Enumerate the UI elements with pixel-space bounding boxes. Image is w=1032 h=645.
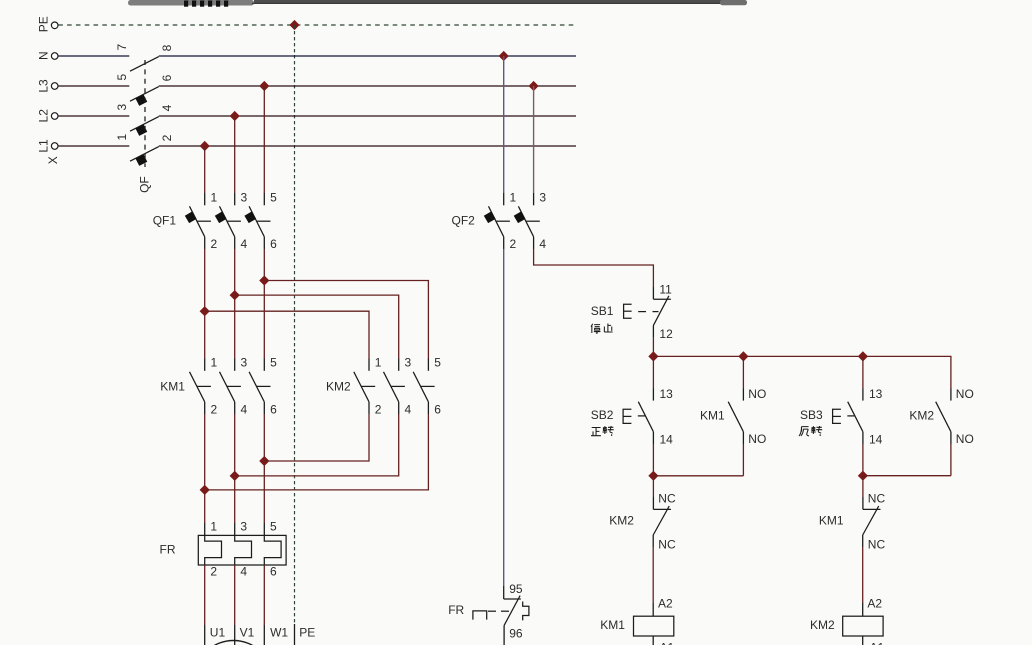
- L3 rail wire: [58, 85, 576, 87]
- pushbutton SB2 labels: [591, 408, 614, 422]
- svg-text:NO: NO: [956, 387, 974, 401]
- thermal relay FR label: [160, 543, 176, 557]
- svg-text:W1: W1: [270, 626, 288, 640]
- svg-text:A2: A2: [658, 596, 673, 610]
- svg-text:6: 6: [270, 564, 277, 578]
- node L3 junction to QF2: [529, 81, 539, 91]
- node L2 junction to QF1: [230, 111, 240, 121]
- svg-text:QF: QF: [138, 176, 152, 193]
- toolbar remnant bar: [128, 0, 747, 7]
- contactor KM2 pole 3-4: [384, 356, 412, 417]
- wire QF2 pole2 to FR95: [503, 237, 505, 599]
- pushbutton SB1 labels: [591, 304, 614, 318]
- contactor KM1 pole 5-6: [249, 356, 277, 417]
- wire QF1 pole4 to KM1 pole3: [234, 237, 236, 371]
- terminal N: [51, 53, 58, 60]
- node junction rung B: [648, 471, 658, 481]
- svg-text:2: 2: [160, 134, 174, 141]
- svg-text:V1: V1: [240, 626, 255, 640]
- wire KM2 NC to coil KM1: [653, 535, 673, 616]
- svg-text:NC: NC: [658, 491, 676, 505]
- node junction rung A to KM1 NO: [738, 351, 748, 361]
- svg-text:1: 1: [211, 356, 218, 370]
- thermal relay FR heater 5-6: [264, 520, 281, 579]
- wire KM2 pole2 return: [264, 402, 369, 461]
- breaker QF2 pole 3-4: [514, 190, 547, 251]
- svg-text:SB3: SB3: [800, 408, 823, 422]
- wire rung A to SB3: [862, 356, 864, 400]
- contactor KM2 pole 5-6: [413, 356, 441, 417]
- node PE junction: [289, 20, 299, 30]
- wire L2 branch to KM2 pole3: [235, 295, 399, 371]
- wire rung B: [653, 475, 743, 477]
- svg-text:NC: NC: [868, 491, 886, 505]
- wire FR pole2 to motor U1: [204, 565, 206, 645]
- svg-text:KM2: KM2: [609, 513, 634, 527]
- L1 rail label: [37, 139, 51, 153]
- svg-text:2: 2: [375, 402, 382, 416]
- wire SB1 to rung A: [652, 325, 654, 356]
- svg-text:2: 2: [510, 237, 517, 251]
- PE vertical wire (dashed): [294, 25, 296, 624]
- svg-text:13: 13: [660, 387, 674, 401]
- pushbutton SB1 chinese label stop: [591, 324, 613, 334]
- svg-text:FR: FR: [448, 603, 464, 617]
- node N junction: [499, 51, 509, 61]
- wire QF1 pole6 to KM1 pole5: [263, 237, 265, 371]
- PE rail label: [37, 16, 51, 32]
- wire FR pole4 to motor V1: [234, 565, 236, 645]
- svg-text:5: 5: [270, 356, 277, 370]
- pushbutton SB3 chinese label reverse: [799, 426, 822, 436]
- svg-text:4: 4: [405, 402, 412, 416]
- wire rung A to KM1 NO: [742, 356, 744, 400]
- svg-text:L1: L1: [37, 139, 51, 153]
- pushbutton SB1 (NC, stop): [624, 282, 673, 341]
- contact KM2 NC (interlock): [653, 491, 676, 551]
- wire L1 branch to KM2 pole1: [205, 311, 369, 371]
- svg-text:4: 4: [539, 237, 546, 251]
- contact KM1 NO (self-hold): [728, 387, 766, 446]
- svg-text:N: N: [37, 51, 51, 60]
- svg-text:A1: A1: [870, 640, 885, 645]
- svg-text:2: 2: [210, 564, 217, 578]
- wire L3 to QF2 pole3: [533, 86, 535, 205]
- node junction rung C: [858, 471, 868, 481]
- svg-text:NC: NC: [658, 537, 676, 551]
- svg-text:3: 3: [241, 356, 248, 370]
- svg-text:11: 11: [659, 282, 672, 296]
- svg-text:KM1: KM1: [700, 409, 725, 423]
- svg-text:KM1: KM1: [819, 513, 844, 527]
- svg-text:QF1: QF1: [153, 214, 177, 228]
- breaker QF1 pole 1-2: [185, 190, 218, 251]
- node junction KM2 pole2 return: [259, 456, 269, 466]
- L1 rail wire: [58, 145, 576, 147]
- coil KM1: [600, 616, 674, 645]
- svg-text:3: 3: [539, 190, 546, 204]
- wire rung B to KM2 NC: [652, 476, 654, 510]
- svg-text:1: 1: [210, 520, 217, 534]
- node junction L3 branch to KM2: [259, 275, 269, 285]
- terminal PE: [51, 22, 58, 29]
- svg-text:4: 4: [240, 564, 247, 578]
- wire L3 branch to KM2 pole5: [264, 281, 428, 371]
- contact KM2 NC label: [609, 513, 634, 527]
- thermal relay FR heater 3-4: [235, 520, 252, 579]
- svg-text:1: 1: [115, 134, 129, 141]
- svg-text:14: 14: [869, 433, 883, 447]
- wire KM1 pole4 to FR pole3: [234, 402, 236, 536]
- contact KM1 NO label: [700, 409, 725, 423]
- breaker QF1 pole 3-4: [215, 190, 248, 251]
- N rail label: [37, 51, 51, 60]
- N rail wire: [58, 55, 576, 57]
- node junction SB1 out: [648, 351, 658, 361]
- pushbutton SB2 (NO, forward): [623, 387, 673, 447]
- svg-text:KM1: KM1: [160, 379, 185, 393]
- svg-text:NC: NC: [868, 537, 886, 551]
- svg-text:5: 5: [434, 356, 441, 370]
- PE wire (dashed): [58, 24, 574, 26]
- svg-text:NO: NO: [748, 432, 766, 446]
- svg-text:KM2: KM2: [810, 618, 835, 632]
- pushbutton SB2 chinese label forward: [591, 426, 614, 436]
- wire KM1 pole2 to FR pole1: [204, 402, 206, 536]
- svg-text:L2: L2: [37, 109, 51, 123]
- thermal relay FR box: [198, 535, 286, 565]
- pushbutton SB3 (NO, reverse): [833, 387, 883, 447]
- wire L3 to QF1 pole5: [263, 86, 265, 205]
- svg-text:2: 2: [211, 237, 218, 251]
- wire KM1 NO to rung B: [742, 432, 744, 476]
- svg-text:3: 3: [241, 190, 248, 204]
- svg-text:14: 14: [660, 433, 674, 447]
- terminal X label: [46, 156, 60, 164]
- motor terminal labels: [210, 626, 315, 640]
- wire KM1 NC to coil KM2: [863, 535, 883, 616]
- contact KM2 NO (self-hold): [936, 387, 974, 446]
- svg-text:3: 3: [115, 104, 129, 111]
- contact KM2 NO label: [909, 409, 934, 423]
- svg-text:1: 1: [375, 356, 382, 370]
- node junction L2 branch to KM2: [230, 290, 240, 300]
- wire KM2 pole4 return: [235, 402, 399, 476]
- contact KM1 NC label: [819, 513, 844, 527]
- svg-text:L3: L3: [37, 79, 51, 93]
- contactor KM2 label: [326, 379, 351, 393]
- svg-text:PE: PE: [37, 16, 51, 32]
- svg-text:4: 4: [241, 237, 248, 251]
- thermal relay FR heater 1-2: [205, 520, 222, 579]
- node junction KM2 pole4 return: [230, 471, 240, 481]
- svg-text:6: 6: [434, 402, 441, 416]
- node junction KM2 pole6 return: [200, 485, 210, 495]
- motor M circle: [194, 641, 273, 645]
- breaker QF2 pole 1-2: [484, 190, 517, 251]
- wire KM2 NO to rung C: [950, 432, 952, 476]
- contactor KM1 pole 3-4: [220, 356, 248, 417]
- svg-text:12: 12: [659, 327, 673, 341]
- L3 rail label: [37, 79, 51, 93]
- wire SB3 to rung C: [862, 432, 864, 476]
- svg-text:3: 3: [240, 520, 247, 534]
- svg-text:NO: NO: [748, 387, 766, 401]
- svg-text:6: 6: [270, 402, 277, 416]
- svg-text:FR: FR: [160, 543, 176, 557]
- wire rung A to SB2: [652, 356, 654, 400]
- svg-text:8: 8: [160, 44, 174, 51]
- wire L2 to QF1 pole3: [234, 116, 236, 205]
- node junction rung A to SB3: [858, 351, 868, 361]
- thermal relay FR control label: [448, 603, 464, 617]
- svg-text:2: 2: [211, 402, 218, 416]
- contact KM1 NC (interlock): [863, 491, 886, 551]
- svg-text:X: X: [46, 156, 60, 164]
- svg-text:1: 1: [510, 190, 517, 204]
- svg-text:13: 13: [869, 387, 883, 401]
- coil KM2: [810, 616, 885, 645]
- svg-text:4: 4: [241, 402, 248, 416]
- L2 rail label: [37, 109, 51, 123]
- svg-text:5: 5: [115, 74, 129, 81]
- terminal L3: [51, 83, 58, 90]
- svg-text:U1: U1: [210, 626, 226, 640]
- svg-text:NO: NO: [956, 432, 974, 446]
- breaker QF1 label: [153, 214, 177, 228]
- breaker QF1 pole 5-6: [244, 190, 277, 251]
- terminal L1: [51, 143, 58, 150]
- svg-text:PE: PE: [299, 626, 315, 640]
- terminal L2: [51, 113, 58, 120]
- node junction L1 branch to KM2: [200, 306, 210, 316]
- svg-text:KM2: KM2: [909, 409, 934, 423]
- svg-text:5: 5: [270, 190, 277, 204]
- svg-text:5: 5: [270, 520, 277, 534]
- svg-text:1: 1: [211, 190, 218, 204]
- wire FR pole6 to motor W1: [263, 565, 265, 645]
- pushbutton SB3 labels: [800, 408, 823, 422]
- wire KM2 pole6 return: [205, 402, 429, 490]
- contactor KM1 pole 1-2: [190, 356, 218, 417]
- svg-text:A2: A2: [867, 596, 882, 610]
- svg-text:3: 3: [405, 356, 412, 370]
- wire KM1 pole6 to FR pole5: [263, 402, 265, 536]
- svg-text:KM1: KM1: [600, 618, 625, 632]
- svg-text:QF2: QF2: [452, 214, 476, 228]
- wire PE to motor: [294, 624, 296, 645]
- node L3 junction to QF1: [259, 81, 269, 91]
- contactor KM1 label: [160, 379, 185, 393]
- wire rung A: [653, 356, 951, 400]
- thermal contact FR 95-96: [504, 582, 523, 645]
- wire N to QF2 pole1: [503, 56, 505, 205]
- contactor KM2 pole 1-2: [354, 356, 382, 417]
- wire rung C: [863, 475, 951, 477]
- main switch QF: [115, 44, 174, 193]
- svg-text:4: 4: [160, 104, 174, 111]
- svg-text:6: 6: [270, 237, 277, 251]
- node L1 junction to QF1: [200, 141, 210, 151]
- svg-text:A1: A1: [660, 640, 675, 645]
- svg-text:SB2: SB2: [591, 408, 614, 422]
- wire L1 to QF1 pole1: [204, 146, 206, 205]
- thermal relay trip actuator: [473, 602, 529, 621]
- svg-text:95: 95: [509, 582, 523, 596]
- wire QF2 pole4 to SB1: [534, 237, 654, 300]
- svg-text:96: 96: [509, 626, 523, 640]
- svg-text:6: 6: [160, 74, 174, 81]
- wire SB2 to rung B: [652, 432, 654, 476]
- svg-text:7: 7: [115, 44, 129, 51]
- L2 rail wire: [58, 115, 576, 117]
- svg-text:SB1: SB1: [591, 304, 614, 318]
- wire rung C to KM1 NC: [862, 476, 864, 510]
- breaker QF2 label: [452, 214, 476, 228]
- wire QF1 pole2 to KM1 pole1: [204, 237, 206, 371]
- svg-text:KM2: KM2: [326, 379, 351, 393]
